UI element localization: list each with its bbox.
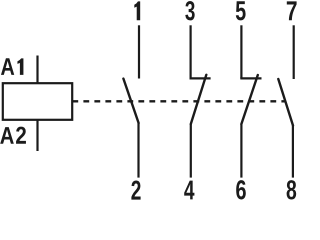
pin number 8 bbox=[287, 180, 297, 199]
pin number 5 bbox=[236, 1, 246, 20]
wire contact4 bottom lead bbox=[292, 126, 294, 178]
wire contact4 top lead bbox=[293, 25, 295, 79]
pin number 7 bbox=[287, 1, 297, 20]
terminal label A1 digit 1 bbox=[17, 58, 23, 74]
contact blade 7-8 (NO contact) bbox=[278, 79, 293, 126]
wire contact3 top horizontal jog bbox=[240, 77, 261, 79]
contact blade 5-6 (NO contact) bbox=[241, 75, 257, 124]
pin number 4 bbox=[184, 181, 194, 200]
wire contact3 bottom lead bbox=[240, 124, 242, 178]
wire A2 lead bbox=[36, 120, 38, 152]
contact blade 3-4 (NO contact) bbox=[191, 75, 207, 124]
wire contact1 bottom lead bbox=[137, 123, 139, 178]
terminal label A1 letter A bbox=[1, 58, 14, 75]
wire A1 lead bbox=[36, 56, 38, 84]
pin number 6 bbox=[236, 180, 246, 199]
pin number 2 bbox=[131, 181, 140, 200]
contact blade 1-2 (NO contact) bbox=[123, 79, 138, 123]
coil K1 (contactor coil box) bbox=[3, 83, 72, 120]
dashed mechanical link line bbox=[72, 100, 284, 102]
terminal label A2 digit 2 bbox=[16, 127, 26, 144]
pin number 3 bbox=[185, 1, 194, 20]
wire contact3 top lead bbox=[240, 25, 242, 78]
wire contact2 top horizontal jog bbox=[190, 77, 211, 79]
pin number 1 bbox=[134, 1, 140, 20]
wire contact2 top lead bbox=[190, 25, 192, 78]
terminal label A2 letter A bbox=[0, 127, 14, 144]
wire contact1 top lead bbox=[138, 25, 140, 78]
wire contact2 bottom lead bbox=[190, 124, 192, 178]
